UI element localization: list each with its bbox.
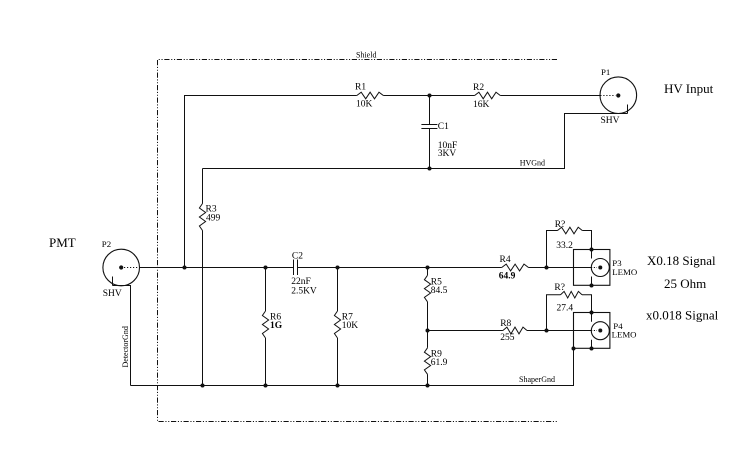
svg-text:61.9: 61.9 [431, 358, 448, 368]
shield dashed outline [158, 60, 558, 422]
node R6 top [264, 266, 268, 270]
wire R4 to P3 [529, 267, 592, 269]
svg-text:25 Ohm: 25 Ohm [664, 276, 706, 291]
wire DetectorGnd shell to bus [113, 286, 131, 386]
node C1 bottom junction [428, 167, 432, 171]
wire R8 to P4 [527, 330, 591, 332]
resistor R? 33.2 [547, 220, 592, 268]
node R7 top [336, 266, 340, 270]
svg-text:3KV: 3KV [438, 149, 457, 159]
svg-text:499: 499 [206, 214, 221, 224]
wire R2 to P1 [500, 95, 600, 97]
connector P3 LEMO [574, 248, 638, 288]
resistor R3 [199, 169, 220, 386]
wire HVGnd [203, 114, 628, 169]
svg-text:64.9: 64.9 [499, 272, 516, 282]
svg-text:x0.018 Signal: x0.018 Signal [646, 308, 719, 323]
node R5 top [426, 266, 430, 270]
node R8/branch junction [545, 329, 549, 333]
svg-text:16K: 16K [473, 100, 490, 110]
capacitor C1 [421, 96, 457, 169]
svg-text:Shield: Shield [356, 51, 376, 60]
resistor R1 [355, 83, 383, 110]
svg-text:R4: R4 [500, 255, 511, 265]
svg-text:DetectorGnd: DetectorGnd [121, 326, 130, 367]
wire signal mid segment [298, 267, 502, 269]
resistor R2 [473, 83, 500, 110]
resistor R5 [424, 268, 447, 331]
svg-text:10K: 10K [342, 321, 359, 331]
node C1 top junction [428, 94, 432, 98]
svg-text:X0.18 Signal: X0.18 Signal [647, 253, 716, 268]
svg-text:R2: R2 [473, 83, 484, 93]
svg-text:84.5: 84.5 [431, 286, 448, 296]
svg-text:C2: C2 [292, 252, 303, 262]
svg-text:R1: R1 [355, 83, 366, 93]
svg-text:LEMO: LEMO [612, 330, 637, 340]
svg-text:R8: R8 [500, 319, 511, 329]
svg-text:LEMO: LEMO [612, 267, 637, 277]
resistor R6 [262, 268, 282, 386]
svg-text:HV Input: HV Input [664, 81, 714, 96]
capacitor C2 [291, 252, 317, 297]
node riser junction [183, 266, 187, 270]
svg-text:SHV: SHV [601, 116, 620, 126]
resistor R? 27.4 [547, 283, 592, 331]
svg-text:P1: P1 [601, 67, 610, 77]
svg-text:P2: P2 [102, 239, 111, 249]
svg-text:ShaperGnd: ShaperGnd [519, 375, 555, 384]
resistor R7 [334, 268, 358, 386]
svg-text:10K: 10K [356, 100, 373, 110]
svg-text:27.4: 27.4 [557, 304, 574, 314]
wire junction to R8 [428, 330, 503, 332]
svg-text:R?: R? [555, 220, 566, 230]
svg-text:HVGnd: HVGnd [520, 159, 545, 168]
wire PMT signal left segment [140, 267, 294, 269]
wire R1 to C1 node [383, 95, 474, 97]
Shield label [353, 48, 381, 60]
svg-text:2.5KV: 2.5KV [291, 287, 317, 297]
wire top: riser corner to R1 [185, 96, 357, 268]
node R5/R8/R9 junction [426, 329, 430, 333]
svg-text:PMT: PMT [49, 235, 76, 250]
connector P2 SHV [102, 239, 140, 299]
node R3/ground bus junction [201, 384, 205, 388]
svg-text:1G: 1G [270, 321, 283, 331]
resistor R9 [424, 331, 447, 386]
resistor R4 [499, 255, 529, 282]
node R4/branch junction [545, 266, 549, 270]
svg-text:R?: R? [554, 283, 565, 293]
connector P1 SHV [600, 67, 637, 126]
svg-text:C1: C1 [438, 122, 449, 132]
connector P4 LEMO [572, 311, 637, 351]
svg-text:22nF: 22nF [291, 277, 311, 287]
wire ground bus ShaperGnd [131, 349, 574, 386]
resistor R8 [500, 319, 527, 343]
svg-text:33.2: 33.2 [556, 241, 573, 251]
svg-text:SHV: SHV [103, 289, 122, 299]
svg-text:255: 255 [500, 333, 515, 343]
